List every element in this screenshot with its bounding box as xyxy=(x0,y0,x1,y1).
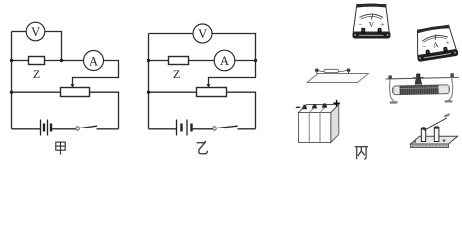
svg-text:V: V xyxy=(369,20,375,29)
svg-text:−: − xyxy=(358,21,362,29)
svg-text:V: V xyxy=(31,25,40,39)
svg-text:Z: Z xyxy=(173,67,180,81)
svg-text:A: A xyxy=(220,54,229,68)
svg-text:Z: Z xyxy=(33,67,40,81)
svg-text:+: + xyxy=(381,21,385,29)
svg-text:V: V xyxy=(198,27,207,41)
svg-text:A: A xyxy=(89,54,98,68)
